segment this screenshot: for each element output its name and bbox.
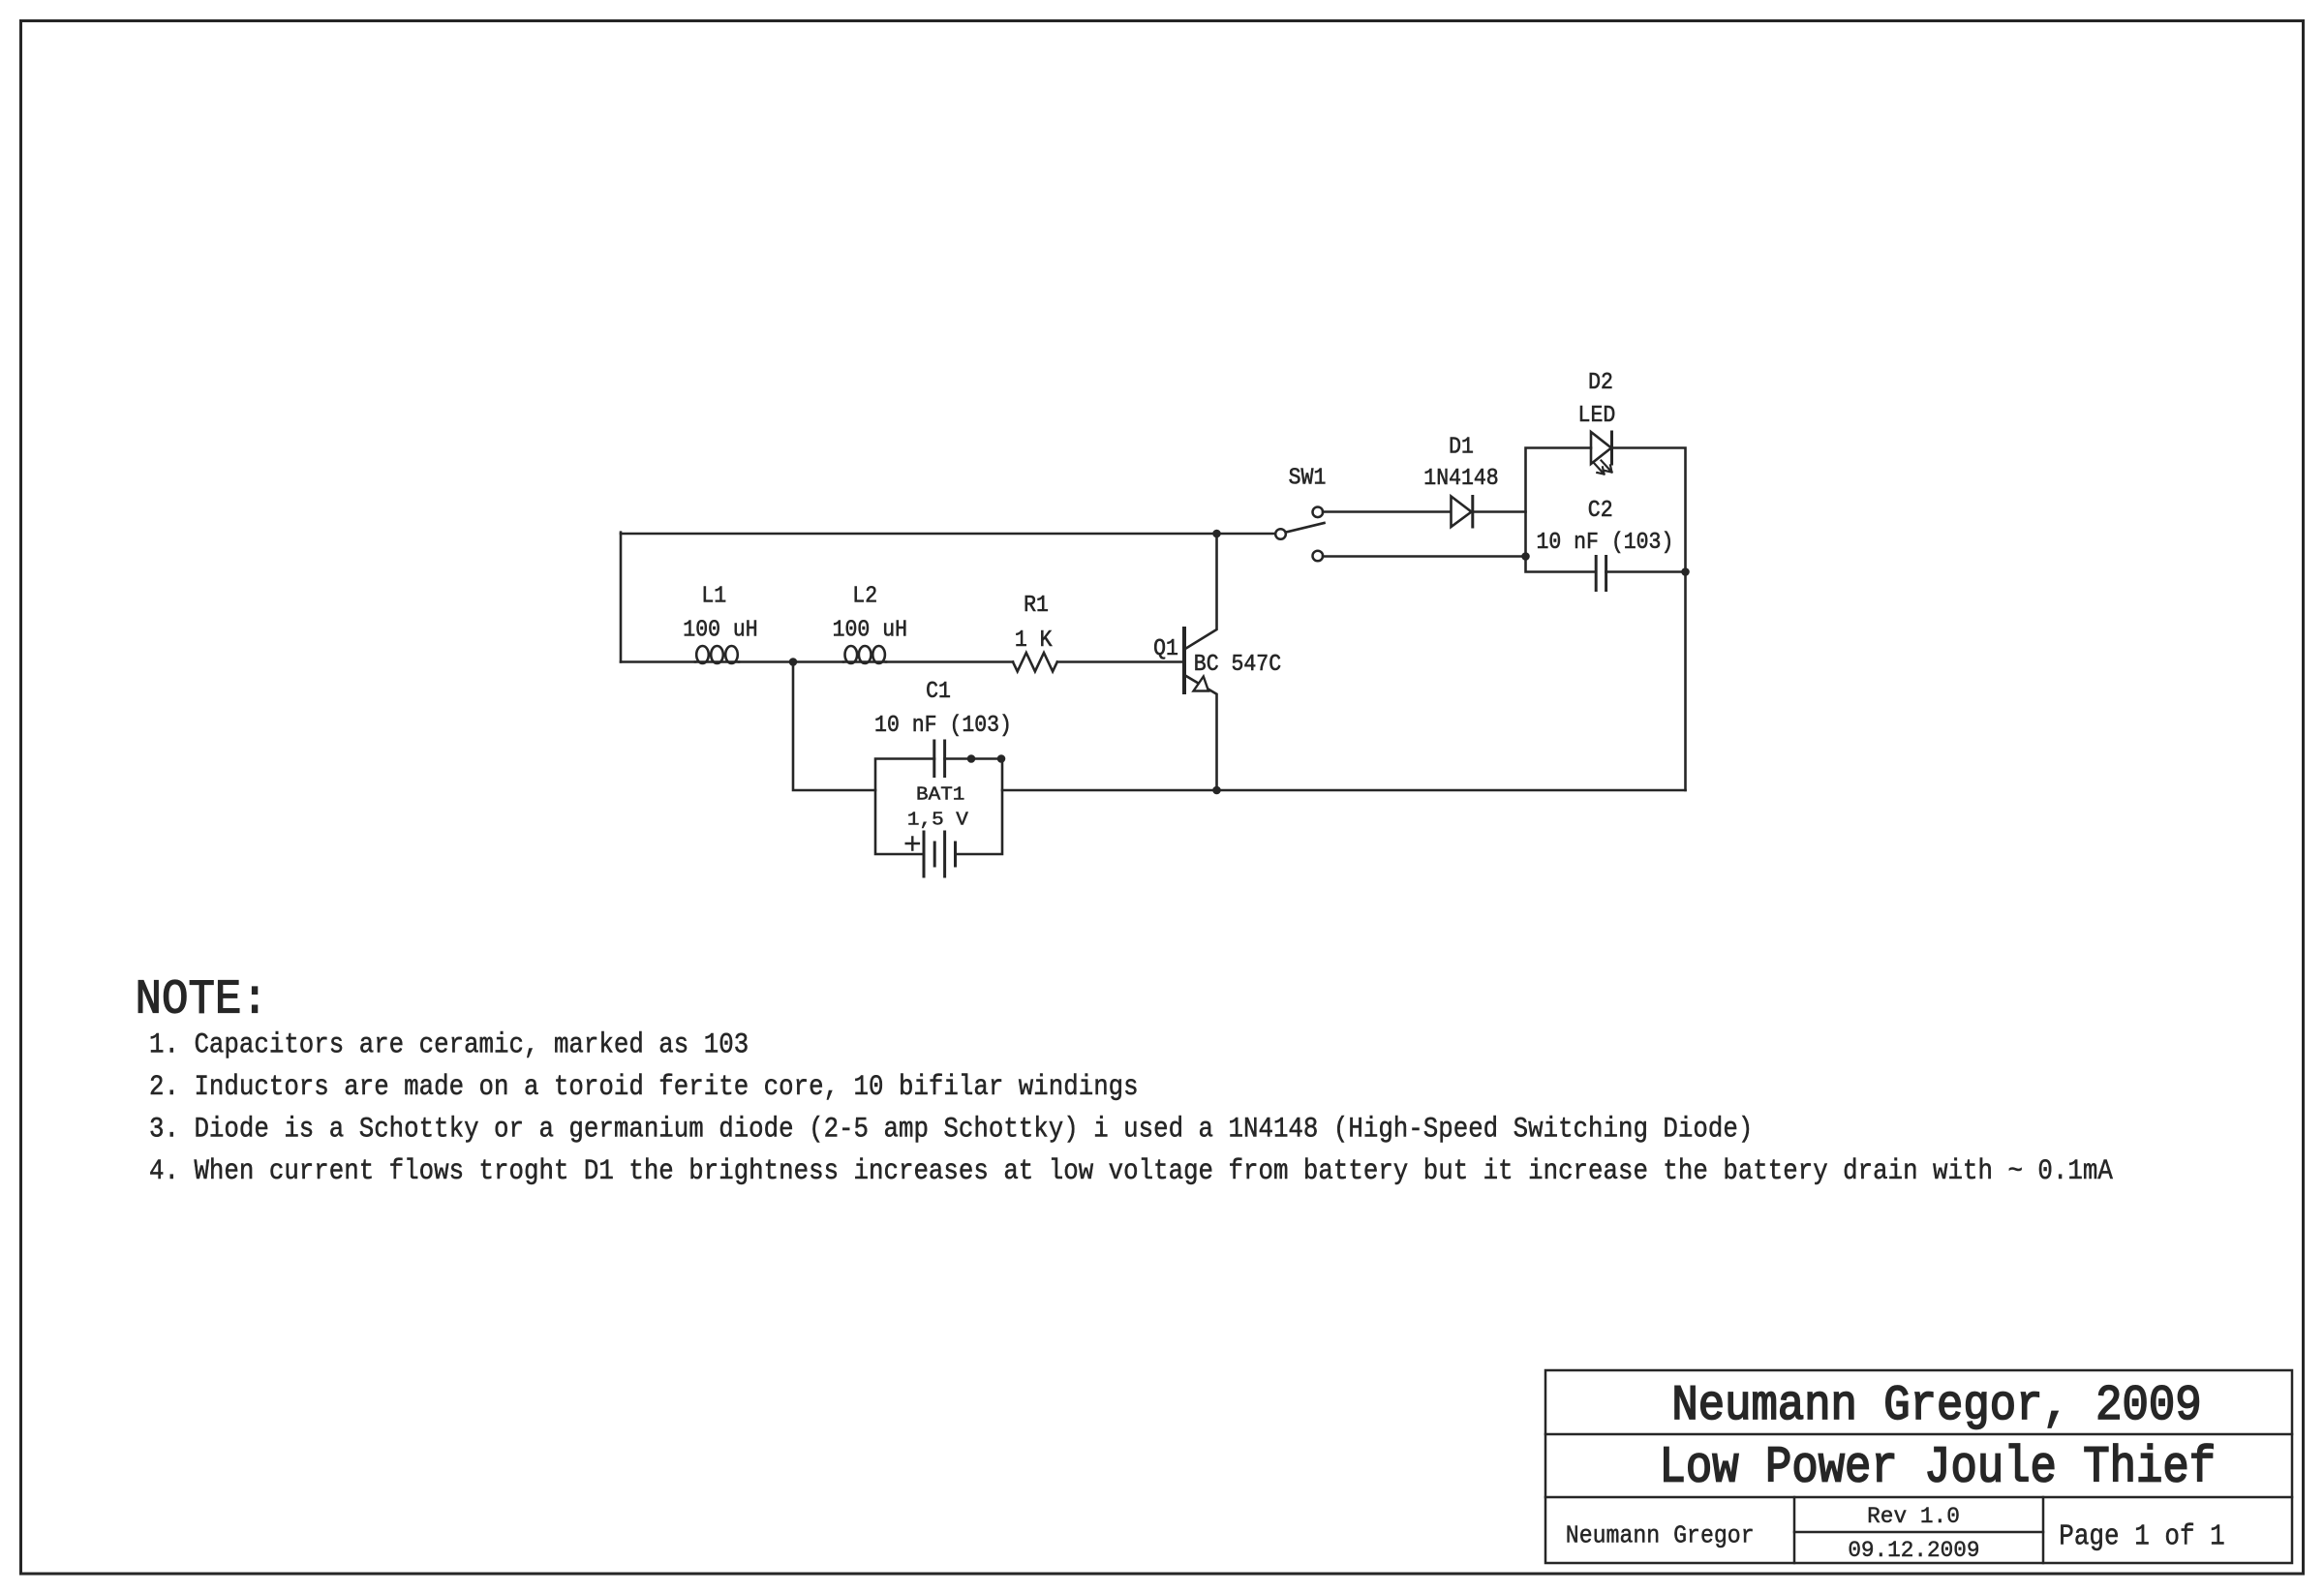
switch SW1 — [1275, 507, 1324, 562]
svg-text:Neumann Gregor, 2009: Neumann Gregor, 2009 — [1671, 1378, 2201, 1434]
node collector junction dot — [1212, 530, 1221, 538]
node junction after L1 — [789, 658, 798, 666]
svg-text:BC 547C: BC 547C — [1194, 651, 1281, 678]
LED D2 / C2 box — [1526, 448, 1686, 572]
svg-text:Page 1 of 1: Page 1 of 1 — [2059, 1521, 2225, 1553]
svg-text:C2: C2 — [1588, 497, 1613, 524]
svg-text:100 uH: 100 uH — [683, 616, 757, 643]
svg-text:Neumann Gregor: Neumann Gregor — [1566, 1523, 1755, 1550]
wire left rail — [620, 533, 623, 662]
node box bottom-right corner dot — [1681, 567, 1690, 576]
svg-text:L1: L1 — [701, 582, 726, 609]
LED D2 emission arrows — [1594, 461, 1612, 475]
svg-text:D2: D2 — [1588, 369, 1613, 396]
svg-text:1. Capacitors are ceramic, mar: 1. Capacitors are ceramic, marked as 103 — [149, 1029, 749, 1061]
wire junction drop to bottom rail — [793, 662, 875, 791]
inductor L2 — [843, 646, 886, 663]
node box left edge dot — [1521, 552, 1530, 561]
inductor L1 — [695, 646, 739, 663]
svg-text:2. Inductors are made on a tor: 2. Inductors are made on a toroid ferite… — [149, 1072, 1139, 1104]
svg-text:10 nF (103): 10 nF (103) — [874, 712, 1012, 739]
wire middle (inductor/resistor row) — [621, 660, 1183, 663]
transistor Q1 — [1184, 534, 1217, 790]
svg-text:09.12.2009: 09.12.2009 — [1848, 1538, 1979, 1563]
svg-text:C1: C1 — [926, 678, 951, 705]
svg-text:3. Diode is a Schottky or a ge: 3. Diode is a Schottky or a germanium di… — [149, 1114, 1753, 1146]
wire switch top throw to D1 — [1323, 510, 1451, 513]
svg-text:D1: D1 — [1449, 433, 1474, 460]
wire bottom rail — [1002, 789, 1686, 792]
resistor R1 — [1013, 653, 1057, 671]
svg-text:SW1: SW1 — [1289, 464, 1327, 491]
svg-text:R1: R1 — [1024, 592, 1049, 619]
svg-text:NOTE:: NOTE: — [136, 973, 268, 1028]
node C1 right lead dot — [967, 754, 976, 763]
transistor Q1 emitter arrow — [1194, 677, 1209, 691]
LED D2 triangle — [1591, 432, 1612, 464]
svg-text:Rev 1.0: Rev 1.0 — [1867, 1504, 1960, 1529]
svg-text:100 uH: 100 uH — [833, 616, 907, 643]
title block frame — [1545, 1370, 2292, 1563]
battery BAT1 box — [875, 759, 1002, 855]
node emitter junction dot — [1212, 786, 1221, 795]
svg-text:BAT1: BAT1 — [916, 784, 964, 806]
capacitor C2 — [1596, 557, 1605, 591]
wire switch bottom throw to C2 box — [1323, 555, 1526, 558]
svg-text:1N4148: 1N4148 — [1423, 465, 1498, 492]
svg-text:L2: L2 — [852, 582, 877, 609]
svg-text:LED: LED — [1578, 402, 1616, 429]
svg-text:10 nF (103): 10 nF (103) — [1536, 529, 1673, 556]
wire right drop to bottom rail — [1684, 572, 1687, 791]
capacitor C1 — [934, 741, 945, 777]
wire top rail — [621, 533, 1276, 536]
diode D1 — [1452, 497, 1526, 528]
svg-text:Q1: Q1 — [1153, 635, 1178, 662]
svg-text:4. When current flows troght D: 4. When current flows troght D1 the brig… — [149, 1156, 2113, 1188]
svg-text:1 K: 1 K — [1015, 627, 1053, 654]
node BAT1 top-right corner dot — [997, 754, 1006, 763]
battery cell plates — [924, 832, 956, 876]
battery plus sign — [906, 838, 919, 850]
svg-text:Low Power Joule Thief: Low Power Joule Thief — [1660, 1439, 2216, 1497]
svg-text:1,5 V: 1,5 V — [907, 810, 969, 831]
